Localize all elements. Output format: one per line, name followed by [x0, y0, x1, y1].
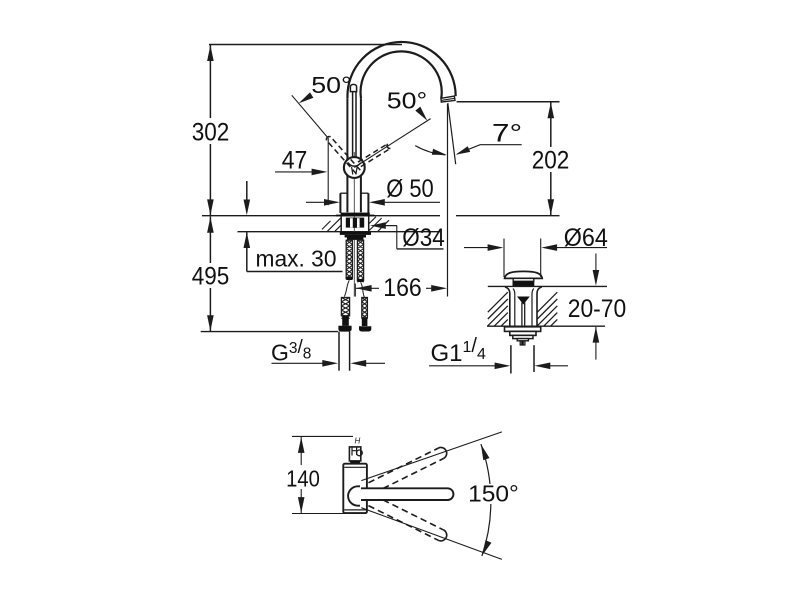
svg-text:140: 140 [286, 465, 320, 491]
threaded shank below counter [340, 216, 342, 232]
G 1 1/4 leader and arrows [429, 365, 496, 367]
swivel extreme line upper [361, 432, 502, 481]
body cylinder top view [343, 464, 367, 513]
threaded stud lower left [341, 298, 349, 316]
dimension 47 extension line [327, 139, 329, 206]
svg-text:max. 30: max. 30 [256, 246, 337, 272]
waste tailpipe G 1 1/4 [510, 345, 512, 373]
svg-text:Ø34: Ø34 [402, 224, 445, 252]
dimension 47 leader [275, 171, 314, 173]
dimension 140 line [300, 437, 302, 465]
riser column walls [346, 98, 348, 212]
faucet center line [353, 152, 355, 297]
swivel extreme line lower [361, 508, 502, 560]
dome neck rings [513, 278, 534, 281]
counter hatch ticks left of shank [322, 218, 341, 232]
spout inner arc [361, 51, 442, 98]
break squiggle right [361, 282, 365, 298]
diameter 34 leader and label [384, 225, 397, 227]
locking nut band [340, 232, 371, 235]
counter section hatching [488, 292, 558, 326]
countertop bottom line (max 30) [238, 231, 441, 233]
dimension 202 top reference line [457, 101, 560, 103]
dimension 140 bottom reference line [292, 513, 360, 515]
dashed lever tilted left [331, 137, 361, 170]
pop-up valve seat [517, 297, 530, 305]
svg-text:50°: 50° [387, 88, 427, 114]
cartridge ball joint [344, 157, 365, 178]
water stream 7 degree line [448, 103, 456, 164]
aerator outlet [441, 96, 455, 102]
text 202 [530, 147, 572, 172]
shank lower stub [347, 238, 363, 240]
counter hatch ticks right of shank [369, 217, 389, 232]
lever rod [352, 92, 354, 158]
countertop top line right segment (202 reference) [456, 215, 560, 217]
waste step [513, 335, 533, 338]
dimension 140 top reference line [292, 435, 353, 437]
50 degree left arrow [299, 92, 314, 103]
G 3/8 leader and arrows [272, 362, 325, 364]
text 150 degrees [470, 484, 516, 504]
swivel arc 150 degrees [481, 444, 491, 556]
ball inner socket arc [348, 163, 361, 167]
svg-text:20-70: 20-70 [568, 295, 627, 323]
50 degree left leader line [292, 95, 329, 138]
50 degree right leader line [354, 119, 430, 168]
supply reference bottom line (495) [201, 331, 338, 333]
stud foot right [359, 326, 371, 331]
7 degree leader [458, 145, 522, 154]
svg-text:150°: 150° [468, 481, 519, 507]
body base cylinder walls (diameter 50) [339, 193, 341, 213]
washer band [345, 235, 366, 238]
dashed spout position lower [374, 495, 444, 530]
waste body through counter [505, 287, 510, 326]
spout joint collar [348, 486, 360, 505]
svg-text:302: 302 [192, 118, 230, 146]
svg-text:50°: 50° [311, 72, 352, 98]
supply pipe G 3/8 [338, 332, 340, 371]
dimension 202 line [550, 102, 552, 147]
dimension text 302 [190, 119, 232, 144]
dimension 495 vertical line [209, 217, 211, 264]
lever top detail [349, 447, 360, 461]
counter section bottom line right fixture [487, 325, 605, 327]
diameter 50 arrows [306, 201, 326, 203]
lever collar dark band [350, 461, 360, 464]
waste flange below counter [505, 327, 541, 332]
dimension text 495 [190, 263, 232, 288]
dimension 20-70 [595, 254, 597, 273]
text 140 [284, 466, 322, 488]
escutcheon flange dark band [341, 213, 370, 216]
svg-text:495: 495 [192, 262, 230, 290]
counter section top line right fixture [488, 285, 607, 287]
countertop top line left segment [202, 215, 440, 217]
threaded stud upper left [346, 240, 352, 278]
pop-up rod [521, 303, 523, 327]
waste tip with dark center [520, 341, 525, 345]
50 degree right arrow [415, 107, 427, 121]
dashed spout position upper [368, 448, 438, 483]
threaded stud upper right [357, 240, 363, 280]
svg-text:Ø 50: Ø 50 [386, 175, 434, 203]
dimension 302 vertical line [209, 45, 211, 119]
svg-text:H: H [355, 437, 361, 446]
waste dome cap [505, 271, 543, 278]
top reference line (spout top level) [209, 44, 402, 46]
diameter 64 arrows [464, 247, 490, 249]
svg-text:202: 202 [532, 146, 570, 174]
break squiggle left [344, 280, 349, 296]
outlet axis extension line [447, 104, 449, 297]
dimension 166 [354, 284, 356, 297]
lever rod knob [350, 84, 356, 91]
threaded stud lower right [362, 298, 368, 319]
waste small fitting [517, 339, 528, 341]
svg-text:7°: 7° [492, 120, 522, 148]
svg-text:166: 166 [383, 274, 422, 302]
spout outer arc [347, 42, 455, 98]
7 degree swivel arc [415, 146, 445, 155]
escutcheon base plate [336, 215, 374, 217]
dashed lever tilted right [361, 148, 391, 166]
max. 30 leader line [247, 271, 343, 273]
mounting nut dark block [346, 218, 364, 228]
diameter 64 extension lines [503, 239, 505, 278]
stud foot left [338, 326, 351, 332]
waste nut [510, 331, 536, 335]
max. 30 dimension arrows [246, 181, 248, 202]
solid spout bar top view [361, 488, 453, 500]
svg-text:47: 47 [282, 147, 308, 175]
